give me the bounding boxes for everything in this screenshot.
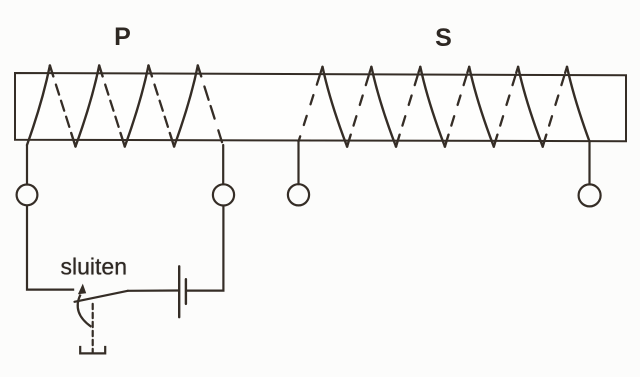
coil P turn 1 (27, 66, 76, 147)
blade rest holder bracket (80, 346, 105, 354)
label sluiten (close) (61, 254, 127, 280)
wire: left branch from terminal 1 down and right to switch contact (27, 205, 74, 289)
closing-motion arrow head (78, 284, 86, 295)
terminal circle 4 (S right) (579, 184, 601, 206)
wire: S left lead down to terminal (297, 142, 299, 185)
battery B1 long plate (178, 266, 180, 317)
svg-text:P: P (114, 23, 131, 51)
coil S turn 4 (469, 67, 518, 147)
switch blade (open) (75, 291, 128, 302)
coil S turn 6 (567, 67, 590, 142)
wire: P left lead down to terminal (26, 146, 28, 185)
coil S entry (dashed back winding) (299, 67, 323, 142)
terminal circle 2 (P right) (213, 184, 234, 205)
coil P turn 3 (125, 66, 174, 147)
wire: P right lead down to terminal (222, 145, 224, 184)
label S (secondary coil) (435, 24, 452, 52)
coil S turn 2 (371, 67, 420, 147)
wire: from battery short plate right and up to terminal 2 (187, 206, 224, 291)
terminal circle 3 (S left) (288, 184, 309, 205)
coil S turn 5 (518, 67, 567, 147)
core rod (rectangle) (15, 73, 626, 141)
coil P turn 2 (76, 66, 125, 147)
dashed open position of blade (92, 304, 94, 353)
svg-text:sluiten: sluiten (61, 254, 127, 280)
terminal circle 1 (P left) (17, 185, 38, 206)
wire: S right lead down to terminal (588, 142, 590, 185)
coil S turn 1 (323, 67, 372, 147)
svg-text:S: S (435, 24, 452, 52)
closing-motion arrow arc (78, 295, 92, 327)
battery B1 short plate (185, 279, 187, 304)
coil P turn 4 (174, 66, 222, 147)
label P (primary coil) (114, 23, 131, 51)
wire: from switch to battery positive plate (128, 289, 178, 291)
coil S turn 3 (420, 67, 469, 147)
